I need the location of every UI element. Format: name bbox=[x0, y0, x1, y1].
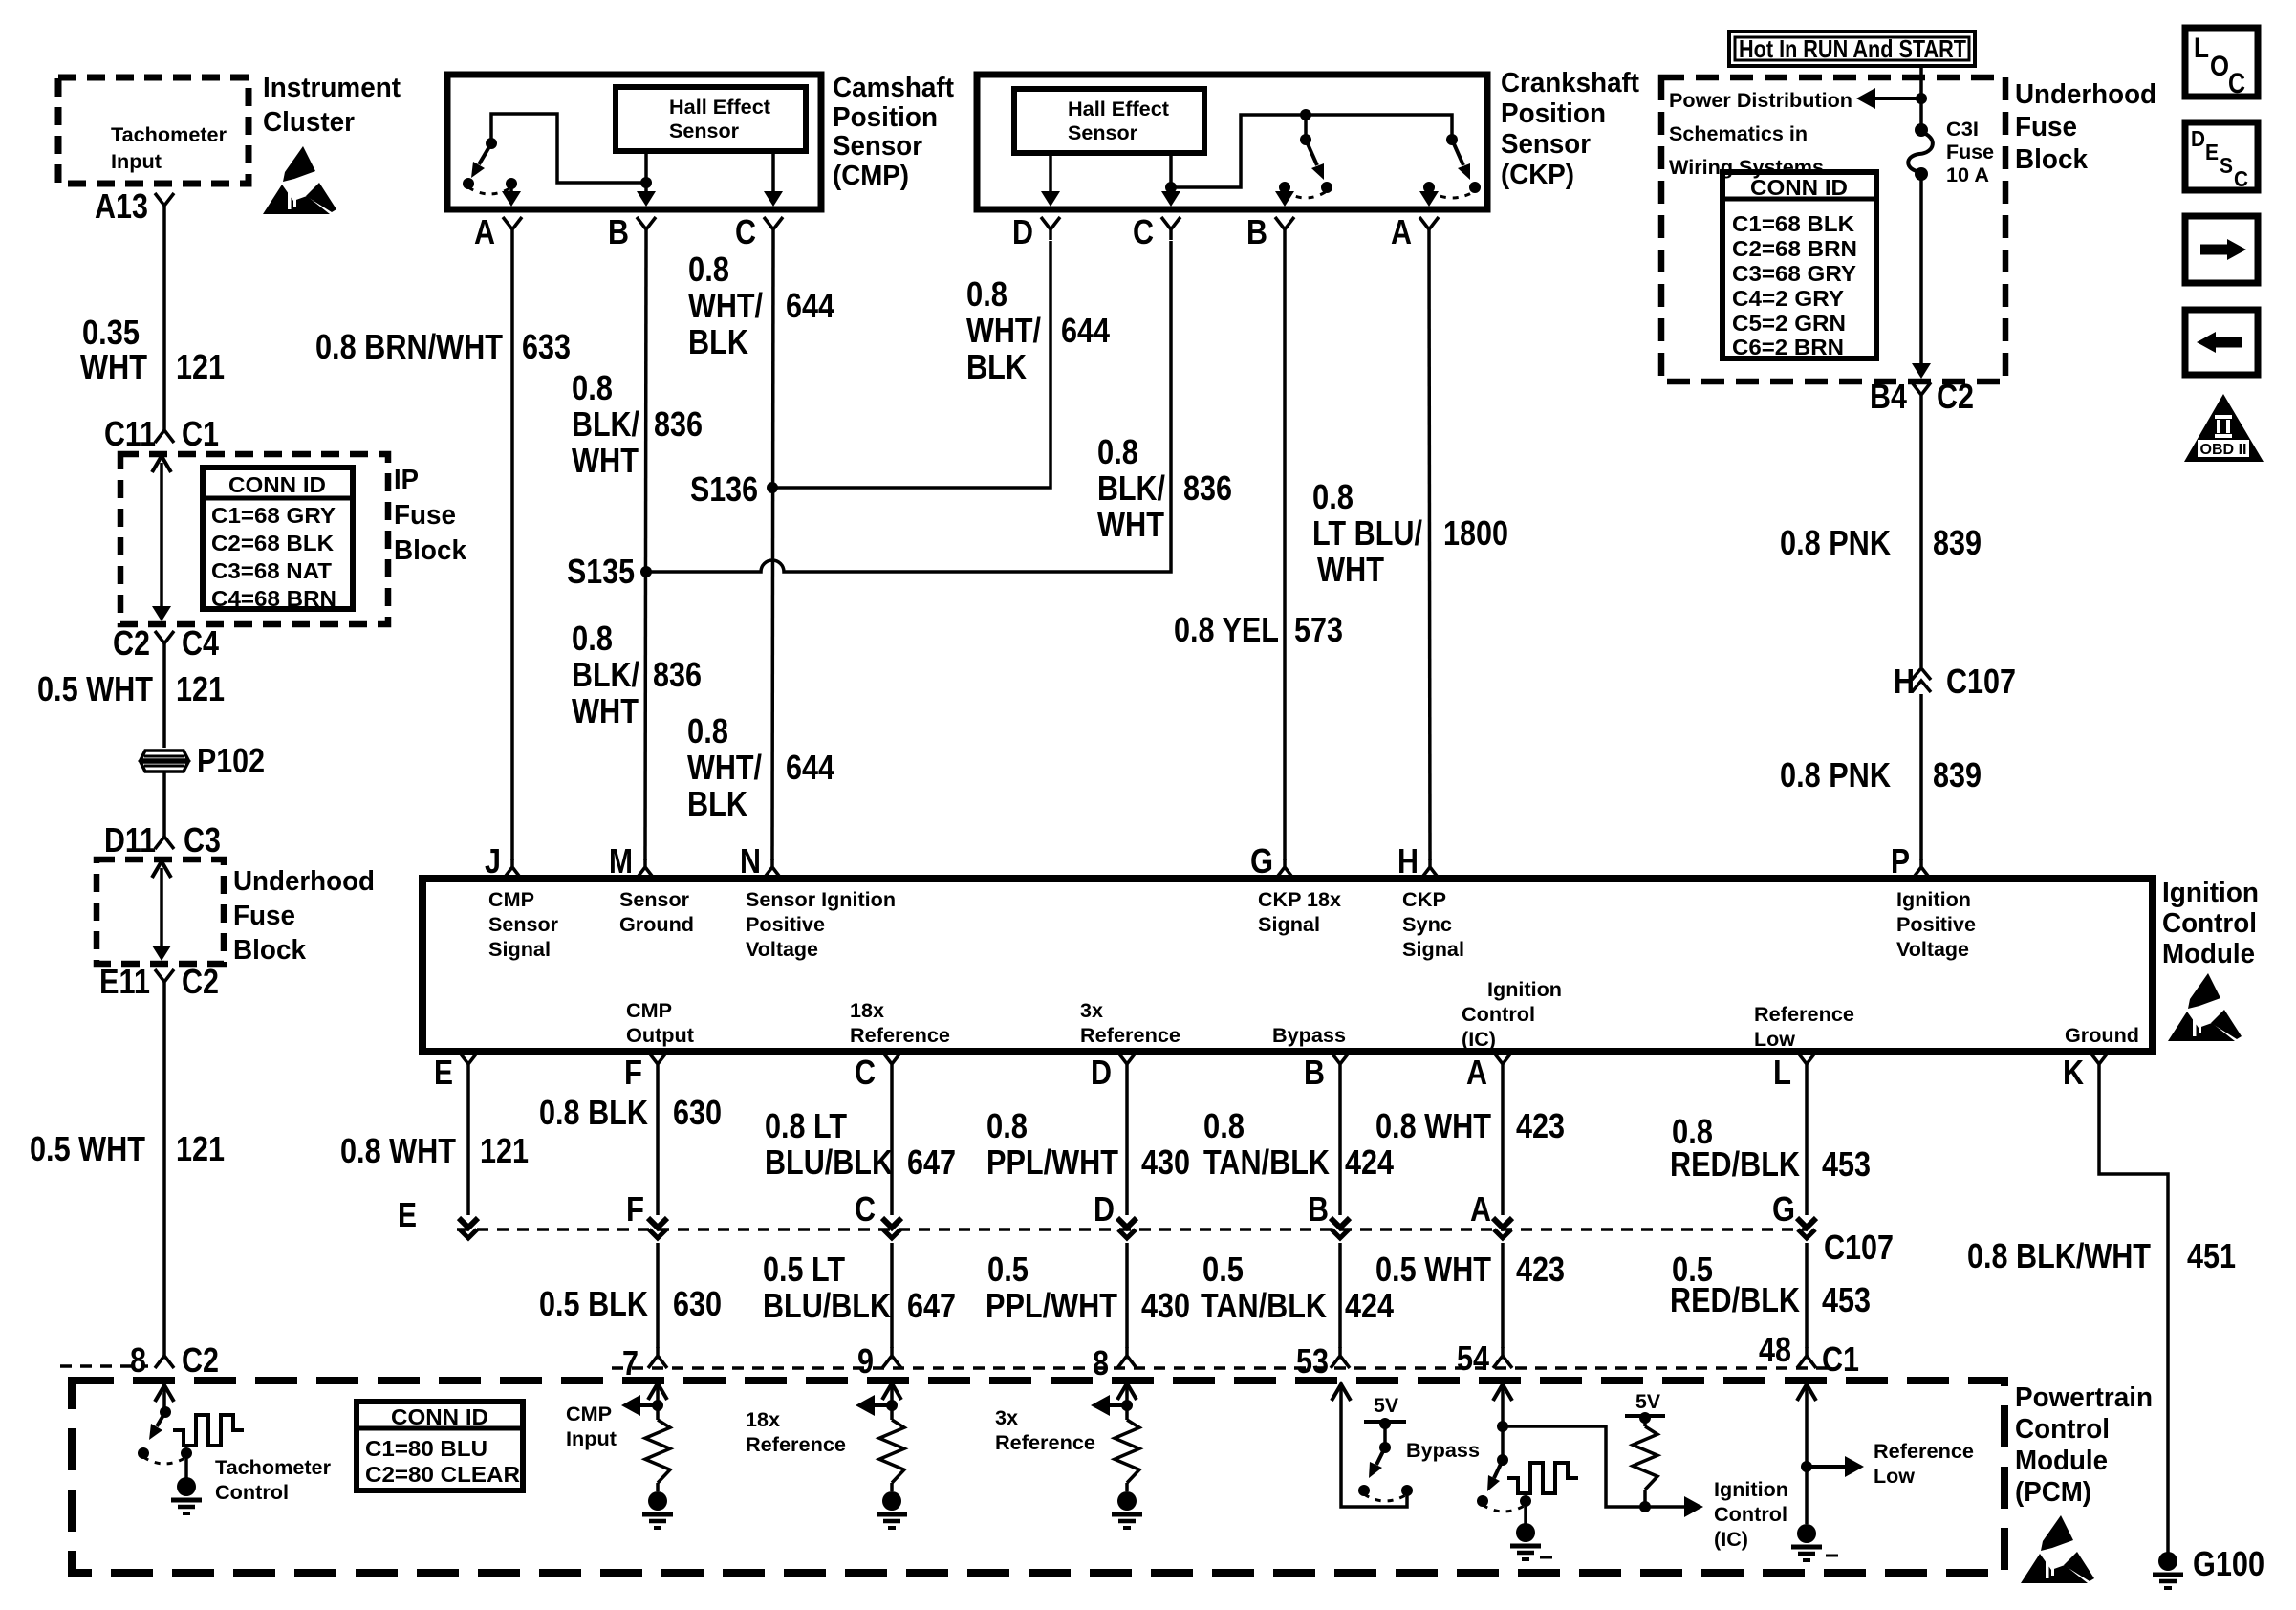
tachometer control switch (PCM) bbox=[138, 1385, 192, 1479]
label IP Fuse Block bbox=[394, 465, 467, 566]
CKP internal supply wiring bbox=[1171, 109, 1452, 187]
svg-text:A: A bbox=[1391, 212, 1412, 251]
ground G100 bbox=[2153, 1544, 2264, 1588]
svg-text:J: J bbox=[485, 841, 501, 881]
svg-text:WHT: WHT bbox=[572, 441, 639, 480]
ICM pin G bbox=[1250, 841, 1294, 881]
wire 121 WHT ICM E to C107 bbox=[340, 1075, 529, 1215]
svg-text:WHT/: WHT/ bbox=[966, 311, 1041, 350]
svg-text:C3: C3 bbox=[184, 820, 221, 859]
18x reference resistor chain (PCM pin 9) bbox=[856, 1383, 904, 1491]
ICM pin M bbox=[609, 841, 655, 881]
svg-text:C5=2 GRN: C5=2 GRN bbox=[1732, 311, 1846, 336]
svg-text:Ground: Ground bbox=[2065, 1025, 2139, 1047]
svg-text:E: E bbox=[2205, 140, 2219, 164]
CKP switch for pin A bbox=[1419, 134, 1481, 207]
svg-text:RED/BLK: RED/BLK bbox=[1670, 1144, 1800, 1184]
wire 630 BLK ICM F to PCM 7 bbox=[539, 1075, 722, 1348]
svg-text:C2=68 BRN: C2=68 BRN bbox=[1732, 236, 1857, 261]
svg-text:Crankshaft: Crankshaft bbox=[1501, 68, 1639, 98]
svg-text:7: 7 bbox=[622, 1343, 639, 1382]
wire 121 WHT E11 to PCM pin 8 bbox=[30, 992, 225, 1347]
camshaft position sensor CMP box bbox=[447, 75, 821, 209]
ICM pin J bbox=[485, 841, 522, 881]
svg-text:0.5 WHT: 0.5 WHT bbox=[30, 1129, 145, 1168]
svg-text:424: 424 bbox=[1345, 1142, 1394, 1182]
svg-text:C: C bbox=[855, 1053, 876, 1092]
svg-text:Ground: Ground bbox=[619, 914, 694, 936]
svg-text:G100: G100 bbox=[2193, 1544, 2264, 1583]
svg-text:C3I: C3I bbox=[1946, 119, 1979, 141]
svg-text:0.8: 0.8 bbox=[1312, 477, 1354, 516]
svg-text:647: 647 bbox=[907, 1142, 956, 1182]
connector D11/C3 bbox=[104, 820, 221, 859]
svg-text:L: L bbox=[1773, 1053, 1791, 1092]
svg-text:Reference: Reference bbox=[1080, 1025, 1180, 1047]
pin B (CMP) bbox=[608, 212, 656, 251]
ESD symbol PCM bbox=[2021, 1515, 2094, 1583]
ICM pin H bbox=[1397, 841, 1440, 881]
svg-text:A: A bbox=[1466, 1053, 1487, 1092]
svg-text:C107: C107 bbox=[1946, 662, 2016, 701]
svg-text:48: 48 bbox=[1759, 1330, 1791, 1369]
svg-text:CMP: CMP bbox=[488, 889, 534, 911]
C107 pin F bbox=[626, 1189, 667, 1238]
label 5V (bypass) bbox=[1374, 1395, 1398, 1417]
svg-text:Fuse: Fuse bbox=[233, 901, 295, 931]
svg-text:CKP 18x: CKP 18x bbox=[1258, 889, 1341, 911]
svg-text:CKP: CKP bbox=[1402, 889, 1446, 911]
CONN ID table (IP fuse block) bbox=[203, 468, 353, 611]
svg-text:Reference: Reference bbox=[850, 1025, 950, 1047]
svg-text:451: 451 bbox=[2187, 1236, 2236, 1275]
svg-text:0.8 YEL: 0.8 YEL bbox=[1174, 610, 1279, 649]
svg-text:18x: 18x bbox=[850, 1000, 884, 1022]
svg-text:0.5 LT: 0.5 LT bbox=[763, 1250, 845, 1289]
svg-text:D: D bbox=[1091, 1053, 1112, 1092]
svg-text:0.5 WHT: 0.5 WHT bbox=[1375, 1250, 1491, 1289]
svg-text:3x: 3x bbox=[995, 1407, 1018, 1429]
pin D (CKP) bbox=[1012, 212, 1060, 251]
label Ignition Control (IC) bbox=[1714, 1479, 1788, 1551]
underhood fuse block dashed box (right) bbox=[1661, 77, 2005, 381]
ICM pin E bbox=[434, 1052, 478, 1092]
svg-text:M: M bbox=[609, 841, 633, 881]
svg-text:CMP: CMP bbox=[566, 1403, 612, 1425]
pin A (CKP) bbox=[1391, 212, 1439, 251]
svg-text:C1=80 BLU: C1=80 BLU bbox=[365, 1436, 487, 1461]
svg-text:Powertrain: Powertrain bbox=[2015, 1382, 2153, 1413]
svg-text:Sync: Sync bbox=[1402, 914, 1452, 936]
svg-text:BLU/BLK: BLU/BLK bbox=[763, 1286, 891, 1325]
svg-text:CMP: CMP bbox=[626, 1000, 672, 1022]
svg-text:Control: Control bbox=[215, 1482, 289, 1504]
svg-text:BLK/: BLK/ bbox=[1097, 468, 1165, 508]
svg-text:H: H bbox=[1894, 662, 1915, 701]
reference low wire (PCM pin 48) bbox=[1797, 1384, 1864, 1524]
svg-text:0.8: 0.8 bbox=[1097, 432, 1138, 471]
svg-text:PPL/WHT: PPL/WHT bbox=[986, 1286, 1117, 1325]
label Underhood Fuse Block (left) bbox=[233, 866, 375, 966]
PCM pin 9 bbox=[857, 1341, 901, 1381]
square wave symbol tachometer bbox=[173, 1415, 244, 1446]
svg-text:B: B bbox=[1304, 1053, 1325, 1092]
svg-text:630: 630 bbox=[673, 1093, 722, 1132]
PCM pin 53 bbox=[1296, 1341, 1350, 1381]
label Powertrain Control Module (PCM) bbox=[2015, 1382, 2153, 1508]
svg-text:0.8 BLK: 0.8 BLK bbox=[539, 1093, 648, 1132]
ignition control switch (PCM pin 54) bbox=[1477, 1384, 1703, 1526]
svg-text:Hot In RUN And START: Hot In RUN And START bbox=[1739, 34, 1966, 63]
svg-text:0.8 BRN/WHT: 0.8 BRN/WHT bbox=[315, 327, 503, 366]
svg-text:C1=68 GRY: C1=68 GRY bbox=[211, 503, 336, 528]
5V pull-up resistor (IC) bbox=[1625, 1391, 1665, 1512]
svg-text:WHT: WHT bbox=[1097, 505, 1164, 544]
PCM pin 48 bbox=[1759, 1330, 1816, 1369]
wire inside underhood fuse block bbox=[152, 861, 171, 961]
label Power Distribution Schematics in Wiring Systems bbox=[1669, 90, 1852, 179]
svg-text:644: 644 bbox=[786, 286, 834, 325]
IP fuse block dashed box bbox=[120, 454, 388, 624]
svg-text:453: 453 bbox=[1822, 1144, 1871, 1184]
svg-text:Hall Effect: Hall Effect bbox=[1068, 98, 1169, 120]
svg-text:WHT/: WHT/ bbox=[687, 748, 762, 787]
svg-text:C107: C107 bbox=[1824, 1228, 1894, 1267]
svg-text:N: N bbox=[740, 841, 761, 881]
svg-text:8: 8 bbox=[1093, 1343, 1109, 1382]
svg-text:B: B bbox=[1246, 212, 1267, 251]
ICM pin D bbox=[1091, 1052, 1137, 1092]
svg-text:L: L bbox=[2194, 33, 2209, 64]
svg-text:Bypass: Bypass bbox=[1406, 1440, 1480, 1462]
svg-text:0.8 WHT: 0.8 WHT bbox=[340, 1131, 456, 1170]
ICM pin function labels top row bbox=[488, 889, 1976, 961]
ground ignition control switch bbox=[1510, 1523, 1552, 1559]
svg-text:423: 423 bbox=[1516, 1250, 1565, 1289]
svg-text:1800: 1800 bbox=[1443, 513, 1508, 553]
svg-text:(PCM): (PCM) bbox=[2015, 1477, 2091, 1508]
svg-text:Signal: Signal bbox=[1402, 939, 1464, 961]
ICM pin K bbox=[2063, 1052, 2109, 1092]
svg-text:C1: C1 bbox=[182, 414, 219, 453]
svg-text:121: 121 bbox=[176, 347, 225, 386]
svg-text:Position: Position bbox=[833, 102, 938, 133]
svg-text:630: 630 bbox=[673, 1284, 722, 1323]
svg-text:C2: C2 bbox=[182, 1340, 219, 1380]
svg-text:Voltage: Voltage bbox=[1896, 939, 1969, 961]
svg-text:0.8: 0.8 bbox=[966, 274, 1007, 314]
svg-text:Block: Block bbox=[2015, 144, 2089, 175]
svg-text:Cluster: Cluster bbox=[263, 107, 355, 138]
label Ignition Control Module bbox=[2162, 878, 2259, 969]
label Underhood Fuse Block (right) bbox=[2015, 79, 2156, 175]
svg-text:0.5: 0.5 bbox=[1202, 1250, 1244, 1289]
svg-text:TAN/BLK: TAN/BLK bbox=[1203, 1142, 1330, 1182]
svg-text:Sensor: Sensor bbox=[488, 914, 558, 936]
svg-text:C6=2 BRN: C6=2 BRN bbox=[1732, 335, 1844, 359]
svg-text:0.5 BLK: 0.5 BLK bbox=[539, 1284, 648, 1323]
svg-text:121: 121 bbox=[176, 669, 225, 708]
ICM pin A bbox=[1466, 1052, 1512, 1092]
wire 121 WHT A13 to C11 bbox=[80, 216, 225, 422]
svg-text:C11: C11 bbox=[104, 414, 156, 453]
svg-text:Positive: Positive bbox=[1896, 914, 1976, 936]
3x reference resistor chain (PCM pin 8) bbox=[1091, 1383, 1139, 1491]
svg-text:P102: P102 bbox=[197, 741, 265, 780]
svg-text:A: A bbox=[474, 212, 495, 251]
svg-text:C: C bbox=[735, 212, 756, 251]
svg-text:C4: C4 bbox=[182, 623, 219, 663]
svg-text:453: 453 bbox=[1822, 1280, 1871, 1319]
ICM pin N bbox=[740, 841, 782, 881]
svg-text:C: C bbox=[855, 1189, 876, 1229]
svg-text:0.8: 0.8 bbox=[572, 368, 613, 407]
CKP switch for pin B bbox=[1275, 134, 1332, 207]
svg-text:Module: Module bbox=[2015, 1446, 2108, 1476]
connector E11/C2 bbox=[99, 962, 219, 1001]
svg-text:O: O bbox=[2210, 51, 2229, 82]
svg-text:Low: Low bbox=[1754, 1029, 1796, 1051]
svg-text:WHT: WHT bbox=[1317, 550, 1384, 589]
svg-text:Ignition: Ignition bbox=[2162, 878, 2259, 908]
CMP hall output wires inside box bbox=[637, 151, 783, 207]
wire 839 PNK C107 to ICM P bbox=[1780, 694, 1982, 860]
powertrain control module PCM dashed box bbox=[72, 1381, 2004, 1573]
svg-text:Sensor: Sensor bbox=[833, 131, 922, 162]
svg-text:BLK: BLK bbox=[688, 322, 748, 361]
icon OBD II triangle bbox=[2184, 394, 2264, 462]
hall effect sensor (CMP) bbox=[616, 87, 806, 151]
svg-text:D: D bbox=[1012, 212, 1033, 251]
bypass switch (PCM pin 53) bbox=[1332, 1384, 1413, 1507]
ground reference low bbox=[1791, 1524, 1838, 1560]
svg-text:Positive: Positive bbox=[746, 914, 825, 936]
svg-text:647: 647 bbox=[907, 1286, 956, 1325]
svg-text:633: 633 bbox=[522, 327, 571, 366]
svg-text:G: G bbox=[1250, 841, 1273, 881]
svg-text:P: P bbox=[1891, 841, 1910, 881]
svg-text:Ignition: Ignition bbox=[1896, 889, 1971, 911]
svg-text:C4=2 GRY: C4=2 GRY bbox=[1732, 286, 1844, 311]
svg-text:CONN ID: CONN ID bbox=[1750, 175, 1848, 200]
wire 644 splice S136 to CKP D bbox=[772, 241, 1110, 488]
svg-text:F: F bbox=[624, 1053, 642, 1092]
ICM pin P bbox=[1891, 841, 1931, 881]
svg-text:Control: Control bbox=[2015, 1414, 2110, 1445]
svg-text:Sensor: Sensor bbox=[669, 120, 739, 142]
svg-text:C: C bbox=[2228, 68, 2245, 99]
wire 573 YEL CKP A to ICM H bbox=[1174, 240, 1430, 860]
svg-text:BLK/: BLK/ bbox=[572, 404, 639, 444]
label 3x Reference bbox=[995, 1407, 1095, 1454]
wire 453 RED/BLK ICM L to PCM 48 bbox=[1670, 1075, 1871, 1348]
fuse C3I 10A bbox=[1908, 119, 1994, 186]
icon DESC bbox=[2185, 122, 2258, 191]
svg-text:Tachometer: Tachometer bbox=[111, 124, 227, 146]
ICM pin B bbox=[1304, 1052, 1350, 1092]
label Tachometer Input bbox=[111, 124, 227, 173]
svg-text:10 A: 10 A bbox=[1946, 164, 1989, 186]
svg-text:Schematics in: Schematics in bbox=[1669, 123, 1808, 145]
svg-text:Signal: Signal bbox=[1258, 914, 1320, 936]
svg-text:0.8: 0.8 bbox=[688, 250, 729, 289]
connector pin 8 C2 (PCM) bbox=[60, 1340, 219, 1380]
svg-text:K: K bbox=[2063, 1053, 2084, 1092]
svg-text:B: B bbox=[1308, 1189, 1329, 1229]
svg-text:S: S bbox=[2220, 153, 2233, 178]
wire P102 to D11 bbox=[162, 771, 166, 828]
C107 pin B bbox=[1308, 1189, 1350, 1238]
svg-text:0.5 WHT: 0.5 WHT bbox=[37, 669, 153, 708]
svg-text:5V: 5V bbox=[1374, 1395, 1398, 1417]
svg-text:Camshaft: Camshaft bbox=[833, 73, 954, 103]
svg-text:C1: C1 bbox=[1822, 1339, 1859, 1379]
svg-text:(CKP): (CKP) bbox=[1501, 160, 1574, 190]
label Reference Low bbox=[1874, 1441, 1974, 1488]
svg-text:Fuse: Fuse bbox=[2015, 112, 2077, 142]
svg-text:Sensor: Sensor bbox=[1501, 129, 1591, 160]
svg-text:IP: IP bbox=[394, 465, 419, 495]
svg-text:Voltage: Voltage bbox=[746, 939, 818, 961]
wire 430 PPL/WHT ICM D to PCM 8 bbox=[986, 1075, 1190, 1348]
svg-text:Tachometer: Tachometer bbox=[215, 1457, 331, 1479]
svg-text:Underhood: Underhood bbox=[233, 866, 375, 897]
icon LOC bbox=[2185, 28, 2258, 99]
connector C107 pin H bbox=[1894, 662, 2016, 701]
CMP input resistor chain (PCM pin 7) bbox=[621, 1383, 670, 1491]
svg-text:644: 644 bbox=[786, 748, 834, 787]
svg-text:C2=68 BLK: C2=68 BLK bbox=[211, 531, 334, 555]
svg-text:121: 121 bbox=[480, 1131, 529, 1170]
svg-text:0.5: 0.5 bbox=[987, 1250, 1029, 1289]
ignition control module box bbox=[422, 879, 2153, 1052]
wire 633 BRN/WHT CMP A to ICM J bbox=[315, 240, 571, 860]
svg-text:Block: Block bbox=[233, 935, 307, 966]
svg-text:0.8 PNK: 0.8 PNK bbox=[1780, 523, 1891, 562]
svg-text:Underhood: Underhood bbox=[2015, 79, 2156, 110]
label 18x Reference bbox=[746, 1409, 846, 1456]
svg-text:Sensor Ignition: Sensor Ignition bbox=[746, 889, 896, 911]
svg-text:430: 430 bbox=[1141, 1142, 1190, 1182]
svg-text:TAN/BLK: TAN/BLK bbox=[1201, 1286, 1327, 1325]
wire from hot box into fuse block bbox=[1856, 66, 1927, 128]
svg-text:54: 54 bbox=[1457, 1338, 1489, 1378]
svg-text:Instrument: Instrument bbox=[263, 73, 401, 103]
svg-text:3x: 3x bbox=[1080, 1000, 1103, 1022]
label Tachometer Control bbox=[215, 1457, 331, 1504]
wire 423 WHT ICM A to PCM 54 bbox=[1375, 1075, 1565, 1348]
svg-text:Module: Module bbox=[2162, 939, 2255, 969]
PCM pin 8 bbox=[1093, 1343, 1137, 1382]
svg-text:Ignition: Ignition bbox=[1487, 979, 1562, 1001]
svg-text:E: E bbox=[398, 1195, 417, 1234]
svg-text:WHT: WHT bbox=[572, 691, 639, 730]
svg-text:430: 430 bbox=[1141, 1286, 1190, 1325]
svg-text:B4: B4 bbox=[1870, 377, 1907, 416]
svg-text:Reference: Reference bbox=[746, 1434, 846, 1456]
svg-text:18x: 18x bbox=[746, 1409, 780, 1431]
ESD symbol ignition control module bbox=[2168, 973, 2242, 1041]
wire inside IP fuse block bbox=[152, 456, 171, 621]
svg-text:D: D bbox=[1094, 1189, 1115, 1229]
svg-text:Power Distribution: Power Distribution bbox=[1669, 90, 1852, 112]
icon arrow left bbox=[2185, 310, 2258, 375]
svg-text:C3=68 NAT: C3=68 NAT bbox=[211, 558, 332, 583]
wire 836 BLK/WHT CMP B to ICM M bbox=[572, 240, 703, 860]
PCM pin 54 bbox=[1457, 1338, 1512, 1378]
C107 pin E bbox=[398, 1195, 478, 1238]
svg-text:BLK/: BLK/ bbox=[572, 655, 639, 694]
wire 424 TAN/BLK ICM B to PCM 53 bbox=[1201, 1075, 1394, 1348]
icon arrow right bbox=[2185, 216, 2258, 283]
svg-text:BLU/BLK: BLU/BLK bbox=[765, 1142, 893, 1182]
ESD symbol instrument cluster bbox=[263, 146, 336, 214]
square wave symbol ignition control bbox=[1507, 1463, 1578, 1493]
svg-text:S136: S136 bbox=[690, 469, 758, 509]
splice S135 bbox=[567, 552, 652, 591]
connector C11/C1 bbox=[104, 414, 219, 453]
pin B (CKP) bbox=[1246, 212, 1294, 251]
svg-text:Ignition: Ignition bbox=[1714, 1479, 1788, 1501]
wire 451 BLK/WHT ICM K to G100 bbox=[1967, 1075, 2236, 1553]
svg-text:839: 839 bbox=[1933, 523, 1982, 562]
svg-text:H: H bbox=[1397, 841, 1419, 881]
svg-text:Low: Low bbox=[1874, 1466, 1916, 1488]
C107 pin C bbox=[855, 1189, 901, 1238]
svg-text:0.8: 0.8 bbox=[687, 711, 728, 751]
svg-text:C3=68 GRY: C3=68 GRY bbox=[1732, 261, 1856, 286]
grommet P102 bbox=[141, 751, 188, 772]
svg-text:C2=80 CLEAR: C2=80 CLEAR bbox=[365, 1462, 520, 1487]
wire 836 splice S135 to CKP C (with hop) bbox=[646, 241, 1232, 572]
svg-text:Bypass: Bypass bbox=[1272, 1025, 1346, 1047]
svg-text:0.8 BLK/WHT: 0.8 BLK/WHT bbox=[1967, 1236, 2151, 1275]
svg-text:E11: E11 bbox=[99, 962, 150, 1001]
crankshaft position sensor CKP box bbox=[977, 75, 1487, 209]
svg-text:RED/BLK: RED/BLK bbox=[1670, 1280, 1800, 1319]
svg-text:573: 573 bbox=[1294, 610, 1343, 649]
svg-text:Hall Effect: Hall Effect bbox=[669, 97, 770, 119]
svg-text:Block: Block bbox=[394, 535, 467, 566]
svg-text:Reference: Reference bbox=[1754, 1004, 1854, 1026]
underhood fuse block dashed box (left) bbox=[97, 859, 224, 964]
svg-text:C4=68 BRN: C4=68 BRN bbox=[211, 586, 336, 611]
svg-text:121: 121 bbox=[176, 1129, 225, 1168]
svg-text:Sensor: Sensor bbox=[1068, 122, 1137, 144]
svg-text:Sensor: Sensor bbox=[619, 889, 689, 911]
svg-text:0.8 WHT: 0.8 WHT bbox=[1375, 1106, 1491, 1145]
svg-text:836: 836 bbox=[653, 655, 702, 694]
svg-text:839: 839 bbox=[1933, 755, 1982, 794]
svg-text:0.8: 0.8 bbox=[1203, 1106, 1245, 1145]
svg-text:Input: Input bbox=[566, 1428, 617, 1450]
svg-text:Reference: Reference bbox=[1874, 1441, 1974, 1463]
svg-text:0.8: 0.8 bbox=[986, 1106, 1028, 1145]
svg-text:C2: C2 bbox=[113, 623, 150, 663]
svg-text:(IC): (IC) bbox=[1462, 1029, 1496, 1051]
svg-text:Control: Control bbox=[1462, 1004, 1535, 1026]
CMP internal wiring and switch bbox=[463, 114, 646, 207]
wire 121 WHT C4 to P102 bbox=[37, 654, 225, 748]
wire 839 PNK B4 to C107 H bbox=[1780, 405, 1982, 667]
svg-text:G: G bbox=[1772, 1189, 1795, 1229]
svg-text:9: 9 bbox=[857, 1341, 874, 1381]
svg-text:423: 423 bbox=[1516, 1106, 1565, 1145]
svg-text:OBD II: OBD II bbox=[2200, 442, 2247, 458]
svg-text:S135: S135 bbox=[567, 552, 635, 591]
svg-text:644: 644 bbox=[1061, 311, 1110, 350]
label Camshaft Position Sensor (CMP) bbox=[833, 73, 954, 191]
